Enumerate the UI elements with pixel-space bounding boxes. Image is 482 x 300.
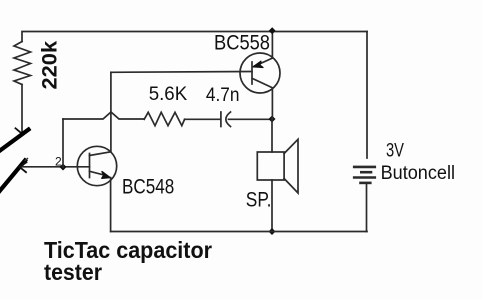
wire BC548 collector rail to BC558 base — [111, 71, 252, 74]
node collector/speaker junction — [269, 116, 276, 123]
node top rail — [269, 27, 276, 34]
probe lead 2 — [0, 161, 25, 194]
wire BC548 emitter down — [110, 178, 112, 232]
svg-text:220k: 220k — [38, 41, 62, 90]
node junction base — [60, 164, 67, 171]
battery BT1 wires — [366, 32, 368, 159]
wire from 220k down to probe arrow — [21, 85, 23, 133]
wire 5.6K to capacitor — [185, 118, 221, 120]
svg-text:4.7n: 4.7n — [206, 85, 240, 106]
transistor Q2 BC558 — [240, 53, 280, 93]
svg-text:tester: tester — [44, 259, 102, 285]
wire capacitor to node — [229, 118, 273, 120]
wire BC558 emitter up to rail — [271, 32, 273, 58]
wire top rail — [22, 32, 367, 42]
resistor R2 5.6K — [144, 112, 184, 125]
wire node to speaker — [271, 119, 273, 152]
transistor Q1 BC548 — [77, 146, 116, 185]
wire BC548 collector up — [110, 72, 112, 152]
speaker SP. — [257, 152, 284, 180]
wire BC558 collector down — [271, 88, 273, 119]
svg-text:5.6K: 5.6K — [149, 84, 188, 105]
svg-text:BC548: BC548 — [122, 175, 174, 198]
wire bottom rail — [111, 231, 367, 233]
resistor R1 220k — [14, 42, 31, 85]
battery BT1 plates — [354, 166, 375, 169]
probe lead 1 — [0, 130, 29, 153]
wire probe to base with arrow — [20, 166, 90, 168]
svg-text:BC558: BC558 — [214, 32, 270, 55]
wire vertical base node up — [62, 119, 64, 167]
svg-text:SP.: SP. — [246, 189, 272, 212]
svg-text:2: 2 — [55, 155, 62, 169]
node bottom rail — [269, 228, 276, 235]
wire speaker down — [271, 180, 273, 232]
svg-text:3V: 3V — [386, 140, 404, 162]
capacitor C1 4.7n — [220, 112, 222, 127]
svg-text:Butoncell: Butoncell — [381, 162, 455, 184]
wire to 5.6K with hop over collector wire — [63, 112, 144, 119]
